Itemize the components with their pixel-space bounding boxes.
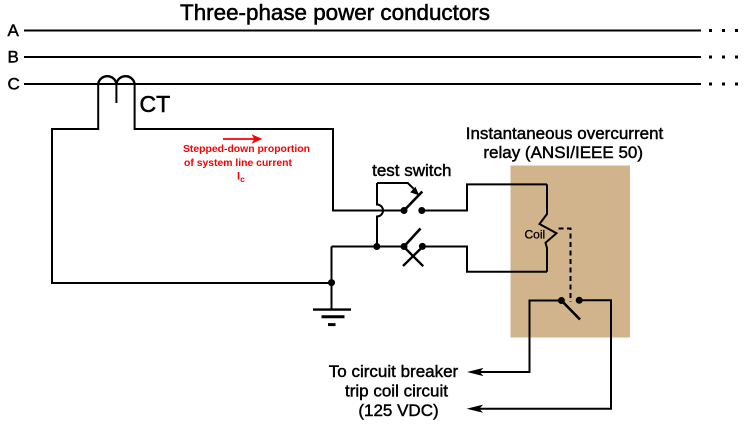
relay coil U1 (540, 184, 557, 271)
actuation dashed link (559, 229, 571, 303)
junction: ground bus (328, 279, 335, 286)
CT right secondary leg (134, 84, 136, 130)
CT center tap stub (115, 84, 117, 103)
arrowhead to trip circuit 1 (467, 368, 484, 376)
red current arrow (223, 134, 263, 143)
svg-text:(125 VDC): (125 VDC) (358, 401, 438, 420)
wire: CT left leg to ground bus (left loop) (52, 129, 332, 283)
svg-text:To circuit breaker: To circuit breaker (329, 362, 459, 381)
svg-text:Ic: Ic (237, 171, 245, 185)
svg-text:Instantaneous overcurrent: Instantaneous overcurrent (466, 124, 664, 143)
svg-text:CT: CT (140, 91, 171, 117)
wire: contact left to trip arrow 1 (479, 301, 561, 373)
relay contact left terminal (558, 297, 565, 304)
relay contact blade (open) (561, 301, 580, 320)
relay case (shaded) (511, 166, 631, 338)
top test switch left contact (401, 207, 408, 214)
bottom test switch blade (open) (404, 229, 421, 247)
phase B conductor (24, 56, 701, 58)
phase C conductor (24, 83, 701, 85)
bottom test switch left contact (401, 243, 408, 250)
svg-text:Stepped-down proportion: Stepped-down proportion (183, 144, 310, 155)
svg-text:Three-phase power conductors: Three-phase power conductors (180, 0, 490, 25)
arrowhead to trip circuit 2 (467, 405, 484, 413)
svg-text:relay (ANSI/IEEE 50): relay (ANSI/IEEE 50) (483, 143, 643, 162)
phase A conductor (24, 30, 701, 32)
svg-text:B: B (8, 48, 19, 67)
top test switch right contact (418, 207, 425, 214)
top switch travel indicator (377, 183, 419, 195)
wire: bottom switch feed from ground bus (332, 246, 405, 248)
CT left secondary leg (97, 84, 99, 130)
phase C continuation dots (709, 83, 738, 86)
wire: bottom switch to relay coil bottom (422, 247, 547, 272)
wire: ground bus riser (331, 247, 333, 310)
wire: contact right to trip arrow 2 (479, 300, 611, 408)
bottom test switch right contact (419, 243, 426, 250)
svg-text:Coil: Coil (525, 227, 546, 241)
top test switch blade (open) (404, 192, 422, 211)
svg-text:C: C (8, 75, 20, 94)
phase A continuation dots (709, 29, 738, 32)
current transformer CT primary arcs (98, 76, 134, 84)
relay contact right terminal (576, 297, 583, 304)
svg-text:test switch: test switch (372, 161, 451, 180)
bottom test switch X marking (403, 247, 423, 266)
ground symbol (313, 310, 351, 325)
phase B continuation dots (709, 56, 738, 59)
svg-text:trip coil circuit: trip coil circuit (345, 382, 448, 401)
svg-text:A: A (8, 21, 20, 40)
wire: CT right leg to top test switch (135, 129, 404, 211)
svg-text:of system line current: of system line current (184, 158, 293, 169)
wire: top switch to relay coil top (422, 184, 547, 210)
wire: crossover hop vertical (blade bus) (377, 183, 383, 247)
junction: blade bus meets bottom feed (373, 243, 380, 250)
